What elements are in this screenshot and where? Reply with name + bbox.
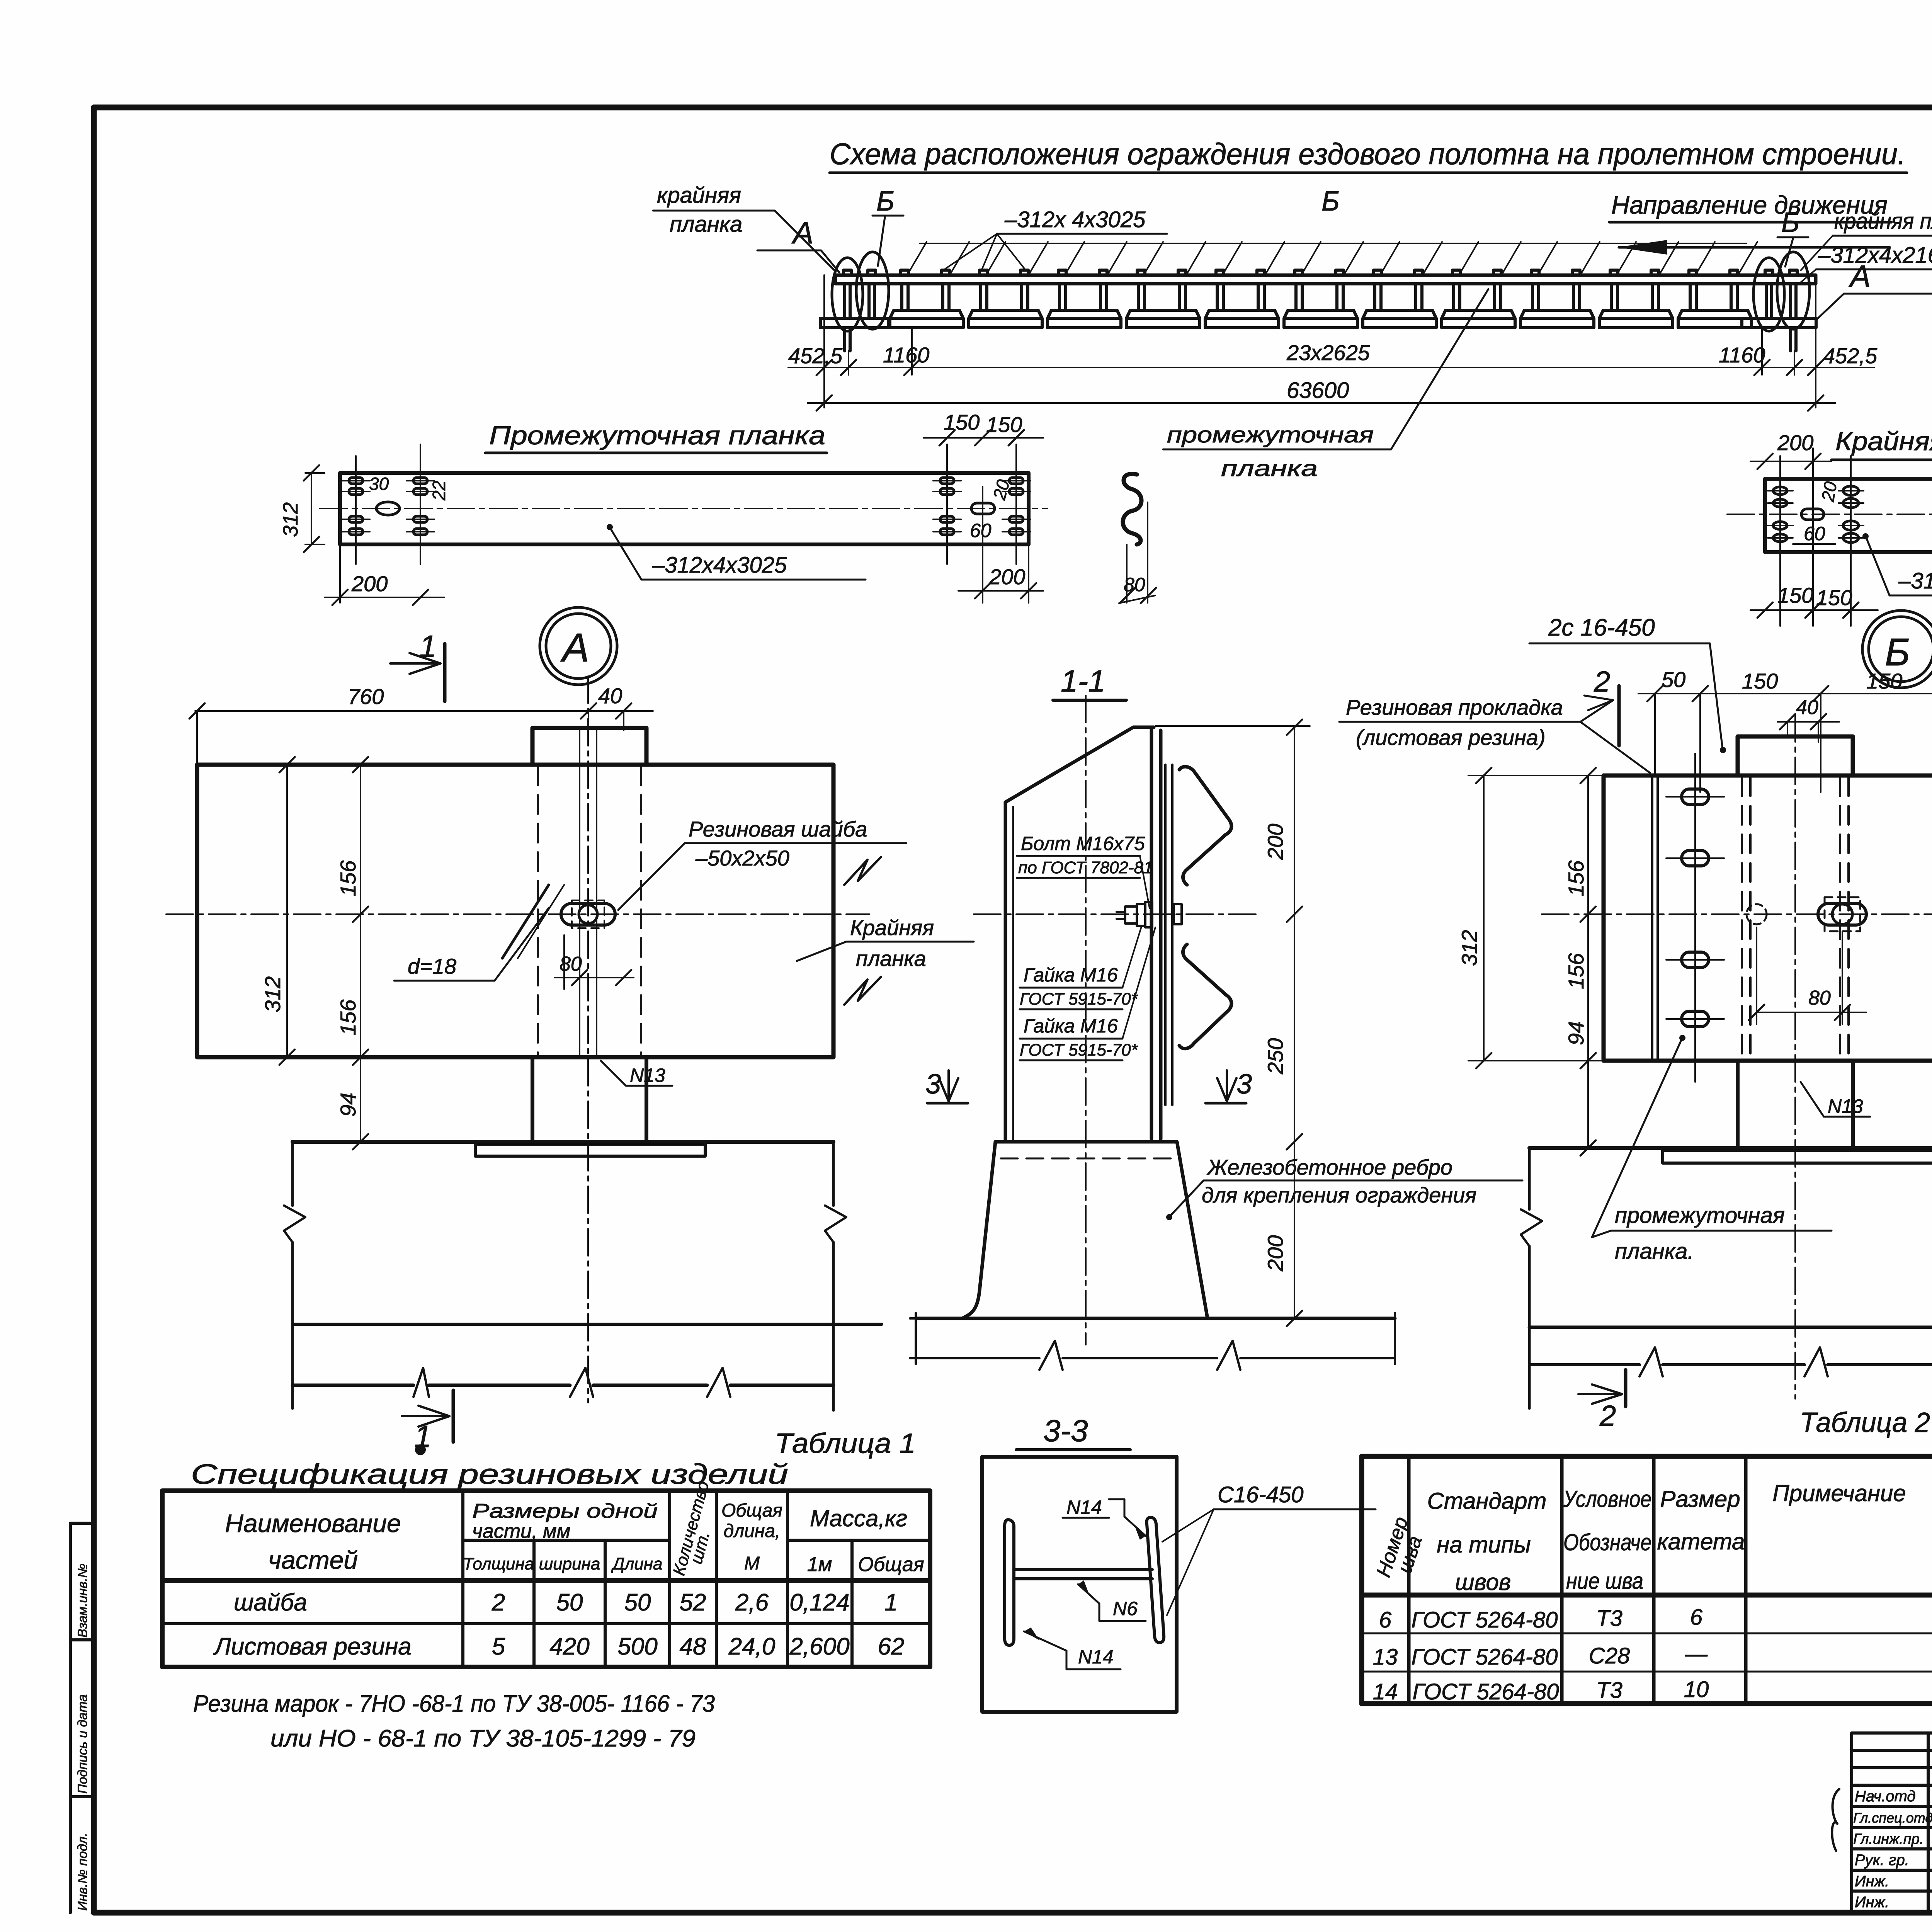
svg-text:156: 156 [1564,860,1588,896]
svg-text:Рук. гр.: Рук. гр. [1855,1852,1909,1869]
svg-text:14: 14 [1373,1679,1398,1704]
svg-text:420: 420 [549,1633,589,1660]
centerline [974,913,1260,915]
svg-text:Крайняя планка: Крайняя планка [1835,427,1932,456]
hidden post edges [538,767,641,1056]
plank face B [1604,776,1932,1061]
svg-text:2с 16-450: 2с 16-450 [1548,614,1655,641]
deck bottom [293,1384,833,1387]
washer detail center [561,903,615,925]
section mark 2 top [1617,686,1621,746]
post 6 [1284,270,1357,328]
svg-text:60: 60 [970,520,992,541]
post top tab [532,728,646,765]
dim 200 bottom left [339,544,341,603]
svg-text:Условное: Условное [1563,1486,1651,1512]
svg-text:3: 3 [925,1069,941,1100]
svg-text:50: 50 [624,1589,651,1616]
post 5 [1205,270,1279,328]
svg-text:М: М [744,1553,760,1574]
svg-text:40: 40 [598,684,622,708]
svg-text:катета: катета [1657,1529,1745,1554]
centerline horizontal [166,913,869,915]
table 1 header texts [225,1509,401,1574]
slots view B [1682,789,1932,1027]
post 1 [890,270,963,328]
svg-text:3-3: 3-3 [1043,1413,1088,1448]
svg-text:швов: швов [1455,1569,1511,1595]
svg-text:Болт М16х75: Болт М16х75 [1021,833,1145,854]
rib body B [1528,1148,1531,1408]
svg-text:ширина: ширина [539,1554,600,1573]
centerline [320,508,1047,509]
label kraynyaya planka left [657,183,742,237]
washer B [1818,903,1866,925]
deck line mid [293,1323,882,1326]
section mark 2 bottom [1624,1370,1628,1406]
svg-text:N14: N14 [1066,1497,1102,1518]
svg-text:156: 156 [336,860,360,896]
svg-text:24,0: 24,0 [728,1633,776,1660]
svg-text:А: А [560,625,589,670]
svg-text:Крайняя: Крайняя [850,915,934,940]
concrete rib top B [1529,1146,1932,1150]
right end detail ovals [1753,258,1784,331]
svg-text:200: 200 [351,571,388,596]
svg-text:Гайка М16: Гайка М16 [1024,1015,1118,1037]
svg-text:30: 30 [369,474,389,494]
svg-text:2,600: 2,600 [789,1633,849,1660]
svg-text:крайняя планка: крайняя планка [1834,209,1932,234]
left end post pair [820,270,888,351]
svg-text:—: — [1685,1641,1708,1667]
post 2 [969,270,1042,328]
svg-text:С16-450: С16-450 [1218,1482,1303,1507]
dim 200 pedestal [1287,1134,1302,1326]
svg-text:частей: частей [268,1546,358,1574]
slots right end [940,478,1023,535]
svg-text:части, мм: части, мм [472,1520,570,1543]
deck lines B [1529,1326,1932,1329]
svg-text:N13: N13 [630,1065,665,1086]
svg-text:Примечание: Примечание [1772,1480,1906,1506]
svg-text:Инж.: Инж. [1855,1873,1889,1890]
svg-text:60: 60 [1804,523,1825,544]
svg-text:150: 150 [1742,669,1778,693]
svg-text:Резина марок - 7НО -68-1 по Т: Резина марок - 7НО -68-1 по ТУ 38-005- 1… [193,1690,715,1717]
svg-text:150: 150 [1866,669,1902,693]
svg-text:Листовая резина: Листовая резина [213,1633,411,1660]
svg-text:Обозначе: Обозначе [1563,1529,1651,1555]
post 9 [1520,270,1594,328]
dim texts row1 [788,340,1878,368]
svg-text:40: 40 [1796,696,1818,719]
svg-text:А: А [791,216,813,250]
svg-text:Взам.инв.№: Взам.инв.№ [75,1564,90,1638]
plank body [1765,479,1932,552]
svg-text:150: 150 [1777,583,1813,607]
svg-text:2: 2 [1594,665,1610,698]
svg-text:d=18: d=18 [408,954,456,978]
rubber pad strip [1652,777,1658,1060]
I-beam lying [1005,1517,1164,1645]
svg-text:Железобетонное ребро: Железобетонное ребро [1206,1155,1452,1179]
dim 150 150 top right [923,437,1043,439]
3-3 box [982,1457,1177,1712]
svg-text:Нач.отд: Нач.отд [1855,1788,1916,1805]
svg-text:Размер: Размер [1660,1486,1740,1512]
svg-text:–312х4х 2160: –312х4х 2160 [1898,568,1932,594]
svg-text:452,5: 452,5 [1823,344,1878,368]
svg-text:312: 312 [260,976,285,1012]
concrete rib top [293,1140,833,1144]
svg-text:Инв.№ подл.: Инв.№ подл. [75,1833,90,1911]
svg-text:23х2625: 23х2625 [1286,340,1370,365]
svg-text:ГОСТ 5915-70*: ГОСТ 5915-70* [1020,1041,1138,1060]
svg-text:150: 150 [944,410,980,434]
section mark 1 top [443,644,447,701]
svg-text:Длина: Длина [611,1554,663,1573]
label promezhutochnaya planka pointer [1167,422,1374,481]
svg-text:(листовая резина): (листовая резина) [1356,725,1546,750]
svg-text:1м: 1м [807,1553,832,1576]
svg-text:Общая: Общая [858,1553,924,1576]
table 1 rows [213,1589,904,1660]
svg-text:Т3: Т3 [1596,1678,1622,1703]
rail band [835,275,1816,284]
svg-text:52: 52 [680,1589,706,1616]
svg-text:Подпись и дата: Подпись и дата [75,1694,90,1794]
svg-text:500: 500 [617,1633,657,1660]
svg-text:Резиновая прокладка: Резиновая прокладка [1346,695,1563,719]
plank face [197,765,833,1057]
svg-text:–312х4х3025: –312х4х3025 [652,553,787,578]
svg-text:–312х 4х3025: –312х 4х3025 [1004,207,1146,232]
post below plank B [1738,1061,1853,1148]
svg-text:ГОСТ 5264-80: ГОСТ 5264-80 [1412,1679,1559,1704]
detail circle A [540,607,617,685]
svg-text:Б: Б [1885,631,1910,674]
svg-text:Гл.спец.отд: Гл.спец.отд [1853,1810,1932,1826]
label kraynyaya planka view A [850,915,934,971]
svg-text:–50х2х50: –50х2х50 [695,846,789,870]
svg-text:3: 3 [1236,1069,1252,1100]
slot cross ticks [1768,491,1864,538]
svg-text:планка.: планка. [1615,1239,1694,1264]
svg-text:Гл.инж.пр.: Гл.инж.пр. [1853,1831,1923,1847]
svg-text:2,6: 2,6 [735,1589,769,1616]
diagonal section slash [502,885,549,958]
svg-text:13: 13 [1373,1645,1398,1670]
svg-text:N6: N6 [1113,1598,1138,1619]
svg-text:22: 22 [429,481,449,501]
detail circle B [1862,611,1932,688]
dim extension lines [824,275,1816,408]
direction arrow [1619,246,1889,249]
label rezinovaya shayba [689,817,867,870]
table 2 rows [1373,1605,1709,1704]
brace mark [1832,1789,1839,1851]
plank joint diagonals [908,242,1757,274]
signature table [1852,1733,1932,1912]
svg-text:Таблица 1: Таблица 1 [775,1428,916,1459]
svg-text:156: 156 [1564,953,1588,989]
svg-text:А: А [1849,259,1871,293]
svg-text:Размеры одной: Размеры одной [472,1500,658,1522]
centerlines B [1542,913,1932,915]
svg-text:для крепления ограждения: для крепления ограждения [1202,1183,1476,1207]
svg-text:80: 80 [1808,987,1831,1009]
svg-text:50: 50 [1662,667,1685,692]
svg-text:С28: С28 [1589,1643,1630,1668]
top dim chain 50 150 150 50 [1638,693,1932,694]
svg-text:планка: планка [856,946,926,971]
svg-text:Промежуточная планка: Промежуточная планка [489,421,825,450]
bolt hole dashed [1747,904,1767,924]
svg-text:промежуточная: промежуточная [1615,1203,1785,1228]
svg-text:452,5: 452,5 [788,344,843,368]
plank edge [1165,765,1172,1105]
svg-text:крайняя: крайняя [657,183,741,208]
svg-text:планка: планка [1221,456,1318,481]
section mark 1 bottom [452,1390,455,1442]
svg-text:1: 1 [419,629,437,663]
w-rail wave [1179,767,1231,885]
W profile edge view [1123,474,1141,544]
svg-text:1160: 1160 [1719,343,1765,367]
svg-text:200: 200 [989,565,1025,589]
svg-text:94: 94 [336,1093,360,1117]
svg-text:ние шва: ние шва [1566,1568,1643,1594]
svg-text:20: 20 [1817,480,1840,503]
base plate under post [475,1142,705,1156]
post tab above plank [1738,736,1853,776]
signature rows text [1853,1788,1932,1911]
svg-text:Б: Б [1781,207,1799,238]
slots left end [349,478,427,535]
svg-text:0,124: 0,124 [789,1589,849,1616]
svg-text:6: 6 [1379,1607,1392,1633]
dim 80 center [554,977,634,978]
dim 150 150 bottom [1750,609,1878,611]
post 3 [1048,270,1121,328]
svg-text:Стандарт: Стандарт [1427,1488,1547,1514]
svg-text:1160: 1160 [883,343,929,367]
svg-text:760: 760 [348,684,384,709]
svg-text:или НО - 68-1 по ТУ 38-105-12: или НО - 68-1 по ТУ 38-105-1299 - 79 [270,1725,696,1752]
svg-text:5: 5 [492,1633,505,1660]
svg-text:Б: Б [876,186,895,217]
svg-text:Инж.: Инж. [1855,1894,1889,1911]
svg-text:10: 10 [1684,1677,1709,1702]
svg-text:на типы: на типы [1437,1532,1531,1558]
svg-text:312: 312 [1457,930,1481,966]
post below plank [532,1057,646,1142]
slot columns B [1695,753,1932,1082]
dim line row2 [808,402,1835,404]
svg-text:длина,: длина, [724,1521,781,1541]
dim 200/250 right [1294,727,1295,1142]
hidden post edges in plank [1742,777,1849,1059]
left end detail ovals [832,258,863,331]
dim 80 B [1757,1012,1866,1013]
deck slab 1-1 [916,1317,1395,1320]
svg-text:1: 1 [884,1589,898,1616]
concrete pedestal [995,1140,1177,1144]
post 11 [1678,270,1752,328]
svg-text:шайба: шайба [234,1589,307,1616]
svg-text:2: 2 [492,1589,505,1616]
svg-text:Т3: Т3 [1596,1606,1622,1631]
svg-text:по ГОСТ 7802-81: по ГОСТ 7802-81 [1018,858,1153,877]
svg-text:6: 6 [1690,1605,1703,1630]
svg-text:промежуточная: промежуточная [1167,422,1374,447]
stamp boxes left margin [70,1523,94,1913]
slots left end [1773,486,1932,543]
right end post pair [1742,270,1816,351]
svg-text:ГОСТ 5915-70*: ГОСТ 5915-70* [1020,990,1138,1009]
svg-text:2: 2 [1599,1400,1616,1432]
rotated stamp text [75,1564,90,1911]
dim line row1 [788,367,1874,368]
svg-text:150: 150 [986,412,1022,437]
svg-text:63600: 63600 [1287,378,1349,403]
post 7 [1363,270,1436,328]
bolt assembly [1117,902,1182,927]
post centerline [587,676,589,1403]
dim chain left 312/156 [286,765,288,1057]
svg-text:48: 48 [680,1633,706,1660]
svg-text:N13: N13 [1828,1095,1863,1117]
slot column lines [1780,448,1932,626]
svg-text:250: 250 [1263,1038,1287,1075]
svg-text:1-1: 1-1 [1061,664,1105,698]
svg-text:ГОСТ 5264-80: ГОСТ 5264-80 [1411,1645,1558,1670]
svg-text:62: 62 [878,1633,905,1660]
plank body [340,473,1029,544]
svg-text:Наименование: Наименование [225,1509,401,1537]
svg-text:ГОСТ 5264-80: ГОСТ 5264-80 [1411,1607,1558,1633]
slot column lines [356,444,1016,603]
bolt slot verticals [580,730,597,1056]
svg-text:80: 80 [560,953,582,975]
svg-text:Б: Б [1321,186,1340,217]
svg-text:200: 200 [1777,430,1813,455]
post 10 [1599,270,1673,328]
post 4 [1126,270,1200,328]
svg-text:200: 200 [1263,1235,1287,1272]
table 1 grid [162,1491,930,1667]
dim 312 left [311,473,312,544]
svg-text:–312х4х2160: –312х4х2160 [1818,243,1932,268]
svg-text:150: 150 [1816,585,1852,610]
rib body [291,1142,294,1408]
svg-text:Резиновая шайба: Резиновая шайба [689,817,867,841]
svg-text:80: 80 [1124,574,1145,595]
small slot cross ticks [342,481,1030,532]
base plate under post B [1663,1148,1932,1163]
svg-text:94: 94 [1564,1021,1588,1045]
overlap reference line [920,243,1747,244]
svg-text:N14: N14 [1078,1646,1114,1668]
svg-text:50: 50 [556,1589,583,1616]
svg-text:Масса,кг: Масса,кг [810,1505,907,1531]
table 2 grid [1362,1456,1932,1704]
svg-text:312: 312 [279,502,302,537]
svg-text:Схема расположения ограждения: Схема расположения ограждения ездового п… [830,137,1906,171]
dim 200 bottom right [1028,544,1029,603]
dim chain left B [1483,776,1485,1061]
svg-text:200: 200 [1263,824,1287,860]
post profile [1005,727,1154,802]
svg-text:156: 156 [336,999,360,1036]
post 8 [1442,270,1515,328]
guard posts [890,270,1752,328]
svg-text:Толщина: Толщина [463,1554,534,1573]
svg-text:Гайка М16: Гайка М16 [1024,964,1118,986]
svg-text:планка: планка [670,212,742,237]
centerline [1727,514,1932,515]
svg-text:Таблица 2: Таблица 2 [1800,1407,1930,1438]
svg-text:Общая: Общая [721,1500,782,1521]
